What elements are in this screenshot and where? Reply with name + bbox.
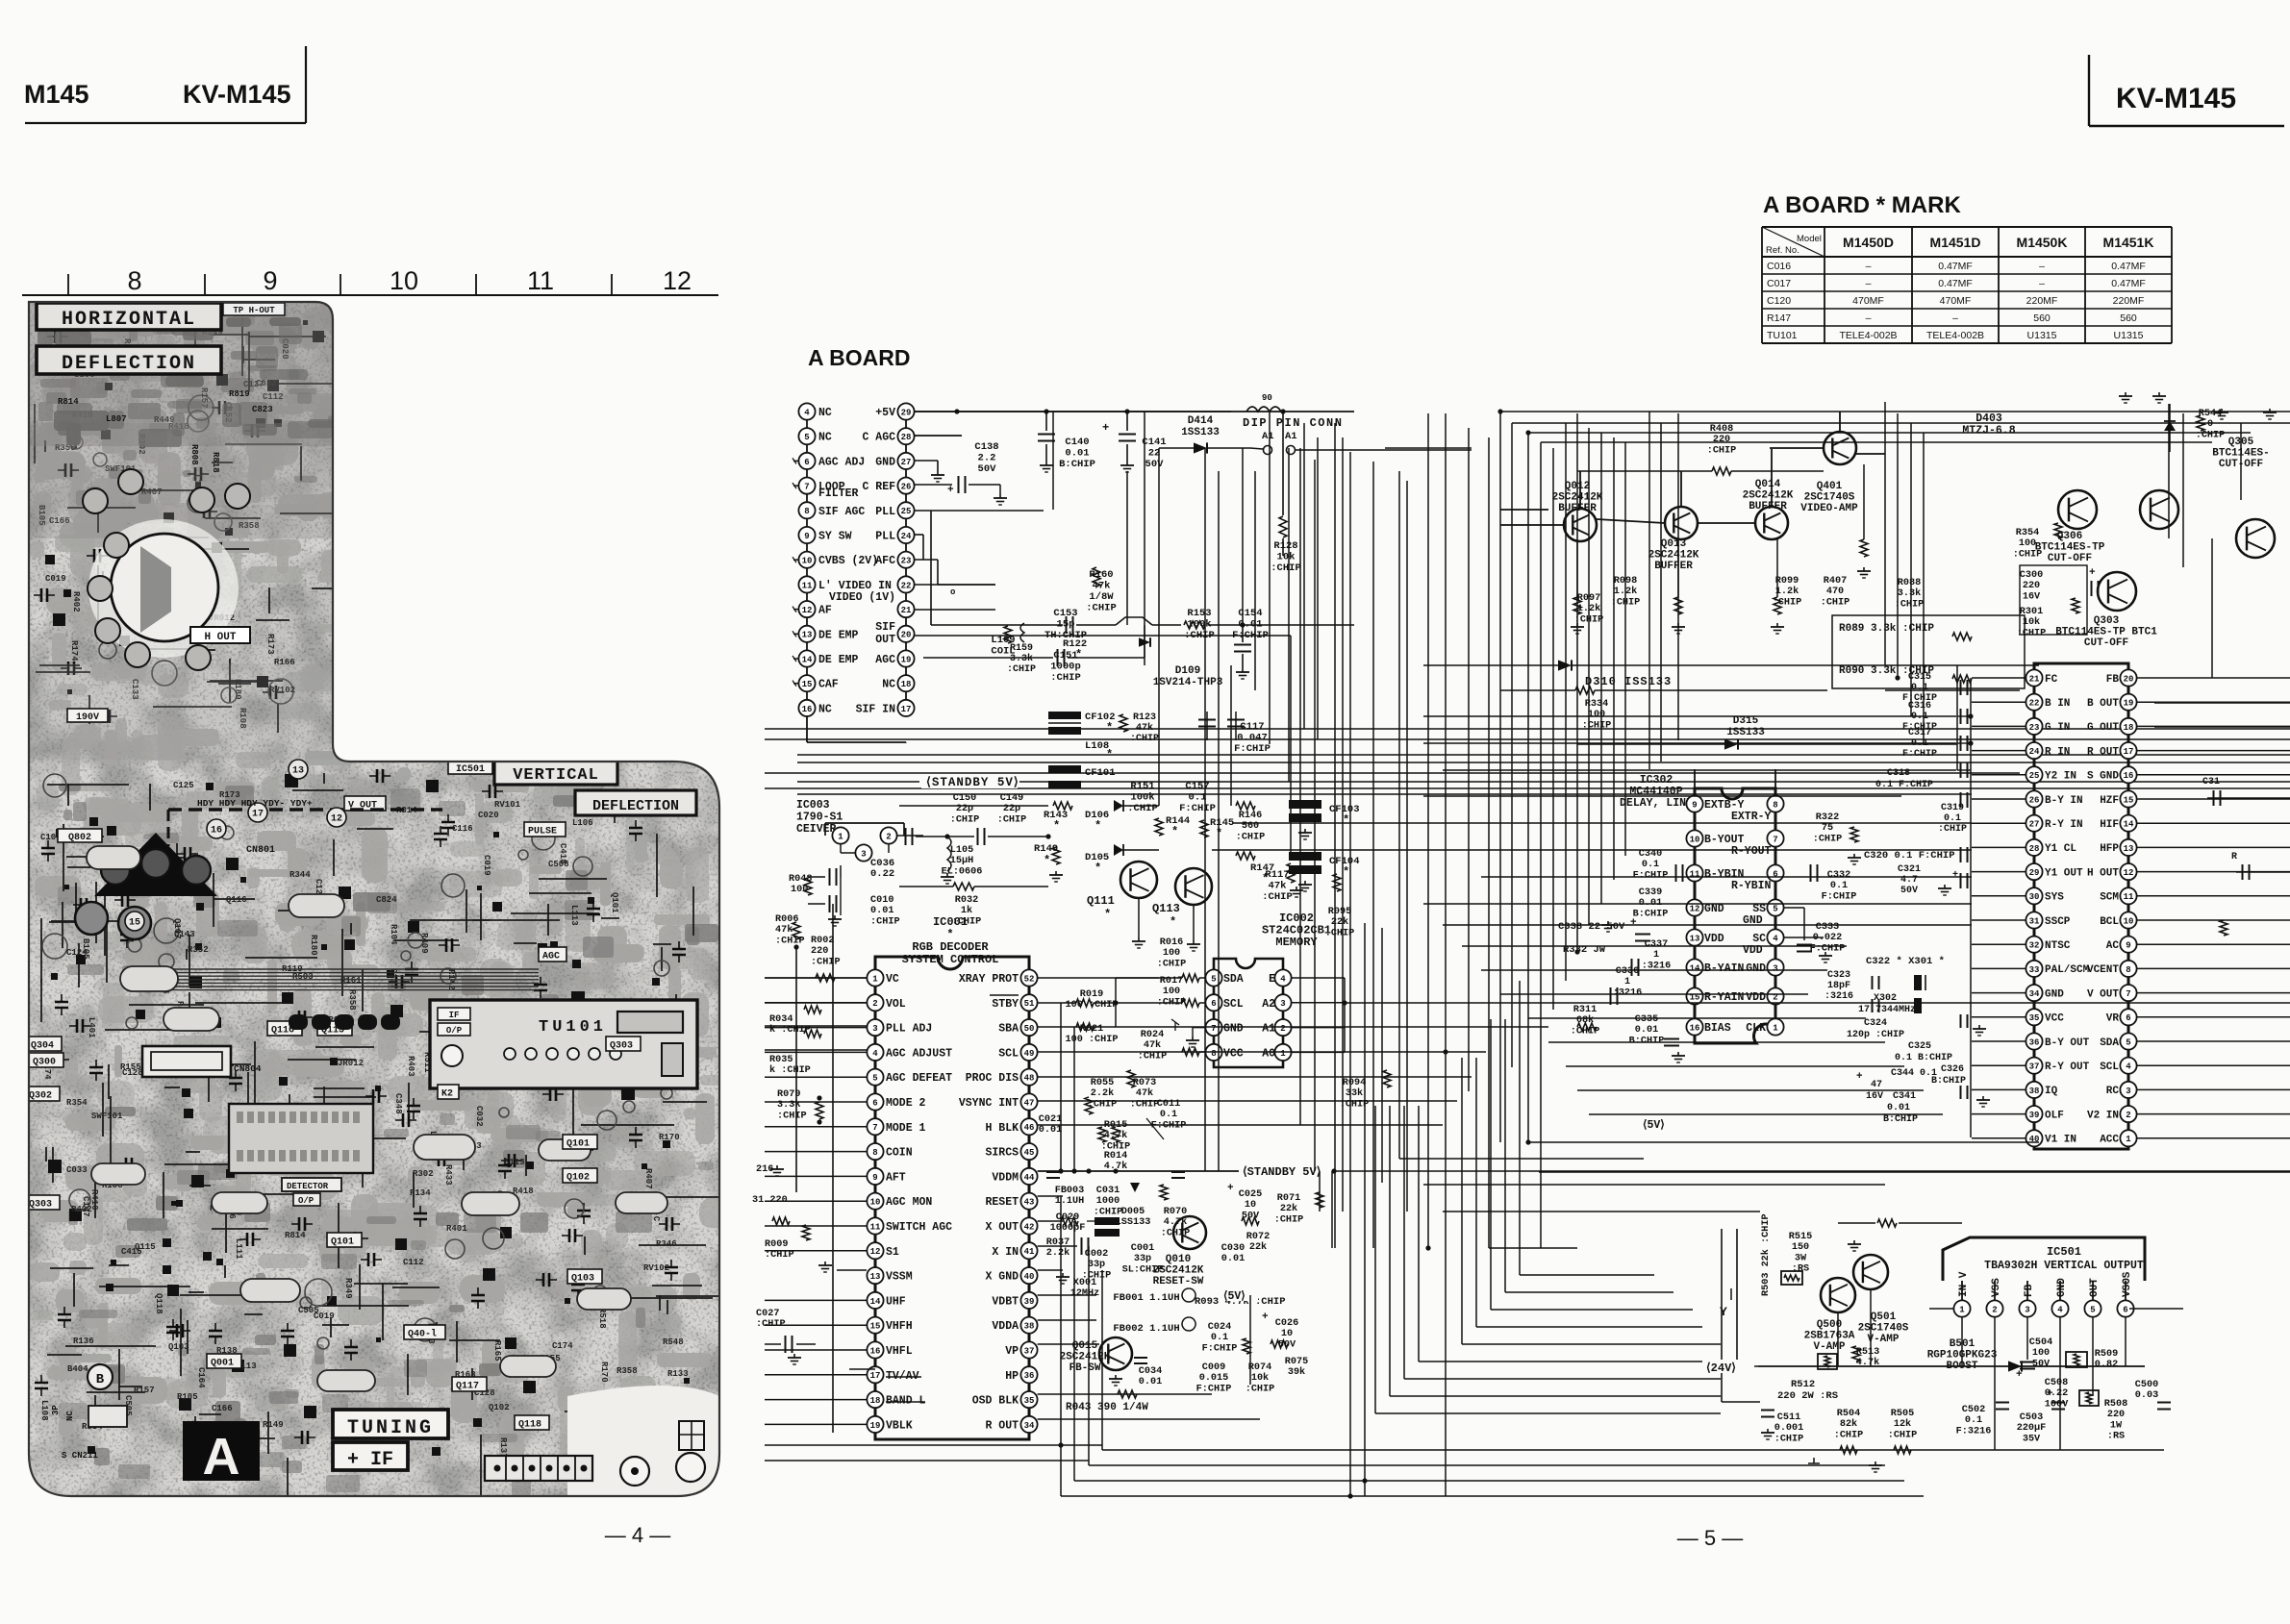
svg-text:3.3k: 3.3k	[777, 1099, 800, 1111]
svg-text:GND: GND	[2045, 988, 2064, 1000]
svg-text:44: 44	[1024, 1173, 1035, 1183]
svg-text:3.3k: 3.3k	[1010, 653, 1033, 664]
svg-text::CHIP: :CHIP	[1246, 1384, 1275, 1394]
svg-text:R515: R515	[1789, 1232, 1812, 1242]
svg-text:C300: C300	[2020, 570, 2043, 581]
svg-text:⟨STANDBY 5V⟩: ⟨STANDBY 5V⟩	[926, 775, 1019, 789]
svg-text:IN V: IN V	[1958, 1271, 1970, 1297]
svg-text:0.1 F:CHIP: 0.1 F:CHIP	[1875, 780, 1933, 790]
svg-text:R358: R358	[347, 989, 357, 1011]
svg-text:KV-M145: KV-M145	[2116, 83, 2236, 114]
svg-text:1SS133: 1SS133	[1726, 727, 1765, 738]
svg-text:R034: R034	[769, 1014, 793, 1025]
PCB black silk lines	[35, 315, 757, 1528]
5V label right	[1640, 1117, 1680, 1130]
svg-text:50V: 50V	[978, 463, 997, 475]
svg-text:C124: C124	[66, 948, 88, 958]
svg-text:0.47MF: 0.47MF	[1938, 278, 1973, 289]
svg-text:45: 45	[1024, 1148, 1035, 1158]
svg-text:49: 49	[1024, 1049, 1035, 1059]
jungle IC right box	[2034, 663, 2128, 1149]
R095 resistor	[1333, 874, 1341, 891]
svg-text:90: 90	[1262, 393, 1272, 403]
svg-text:14: 14	[2124, 820, 2134, 830]
power bus horizontal lines	[765, 729, 2290, 794]
board designator A black box	[183, 1421, 260, 1481]
svg-text::CHIP: :CHIP	[1774, 1434, 1804, 1444]
R144 R145 resistors	[1155, 818, 1163, 836]
svg-text:38: 38	[1024, 1322, 1035, 1332]
svg-text:C339: C339	[1639, 887, 1662, 898]
svg-text:CEIVER: CEIVER	[796, 823, 837, 836]
svg-text:10: 10	[1281, 1329, 1293, 1339]
svg-text:SCL: SCL	[2100, 1062, 2119, 1073]
svg-text:XRAY PROT: XRAY PROT	[959, 973, 1019, 986]
svg-text:*: *	[1044, 854, 1050, 867]
dashed deflection route	[168, 808, 442, 811]
svg-text:7: 7	[804, 483, 809, 492]
svg-text:0.001: 0.001	[1774, 1423, 1804, 1434]
svg-text:+: +	[1630, 917, 1637, 929]
svg-text:32: 32	[2029, 941, 2040, 951]
svg-text:C337: C337	[1645, 939, 1668, 950]
svg-text:+: +	[1227, 1183, 1234, 1194]
junction dots on grid	[1058, 409, 1973, 1498]
svg-text:R-YAIN: R-YAIN	[1704, 991, 1745, 1004]
svg-text:11: 11	[2124, 892, 2134, 902]
svg-text:36: 36	[1024, 1371, 1035, 1381]
svg-text:43: 43	[1024, 1198, 1035, 1208]
transformer T802 circle	[111, 534, 218, 641]
svg-text:23: 23	[901, 557, 912, 566]
svg-text:RESET-SW: RESET-SW	[1153, 1276, 1204, 1287]
black IC footprint row	[289, 1014, 400, 1030]
svg-text:R518: R518	[597, 1308, 607, 1329]
svg-text:GND: GND	[1746, 962, 1766, 975]
svg-text:C503: C503	[2020, 1412, 2043, 1423]
IC002 GND pin wire	[1193, 1027, 1205, 1029]
svg-text:17: 17	[252, 810, 264, 820]
svg-text:11: 11	[527, 266, 554, 295]
svg-text:VR: VR	[2106, 1013, 2120, 1025]
svg-text:0.47MF: 0.47MF	[2111, 261, 2146, 272]
svg-text:Q113: Q113	[1152, 902, 1180, 915]
svg-text:5: 5	[2126, 1037, 2130, 1047]
svg-text:0.1: 0.1	[1965, 1415, 1982, 1426]
svg-text:AGC DEFEAT: AGC DEFEAT	[886, 1072, 952, 1085]
svg-text:R128: R128	[1273, 540, 1297, 552]
svg-text:BIAS: BIAS	[1704, 1022, 1731, 1035]
svg-text::CHIP: :CHIP	[811, 957, 841, 967]
svg-text:C AGC: C AGC	[862, 432, 895, 444]
IC001 right pins 52-34	[959, 969, 1038, 1433]
svg-text:–: –	[2039, 278, 2045, 289]
svg-text:V-AMP: V-AMP	[1813, 1341, 1845, 1353]
svg-text:B IN: B IN	[2045, 698, 2070, 710]
svg-text:F:CHIP: F:CHIP	[1179, 803, 1216, 814]
svg-text:R099: R099	[1775, 576, 1799, 587]
svg-text:10k: 10k	[1251, 1372, 1269, 1384]
svg-text:22k: 22k	[1280, 1203, 1297, 1214]
svg-text:R358: R358	[617, 1366, 638, 1376]
svg-text:16: 16	[802, 705, 813, 714]
svg-text:27: 27	[2029, 820, 2040, 830]
IC302 right pins	[1746, 795, 1783, 1035]
svg-text:CN804: CN804	[234, 1063, 262, 1074]
IC501 left feed wires	[1721, 1229, 1723, 1402]
svg-text:R311: R311	[1573, 1005, 1597, 1015]
svg-text:+: +	[1856, 1071, 1863, 1083]
svg-text:1000: 1000	[1096, 1196, 1120, 1207]
svg-text:8: 8	[804, 507, 809, 516]
svg-text::CHIP: :CHIP	[1821, 597, 1850, 608]
svg-text:Q500: Q500	[1817, 1319, 1842, 1331]
svg-text:C505: C505	[298, 1306, 319, 1315]
svg-text:1000pF: 1000pF	[1050, 1223, 1086, 1234]
svg-text:50V: 50V	[1900, 886, 1918, 896]
svg-text:BCL: BCL	[2100, 916, 2119, 928]
svg-text:7: 7	[1211, 1024, 1216, 1034]
rect around R089 R090	[1832, 615, 2025, 688]
svg-text:0.22: 0.22	[870, 868, 894, 880]
svg-text:C116: C116	[452, 824, 473, 834]
svg-text:C019: C019	[45, 574, 66, 584]
pin22 VIDEO wire	[915, 584, 995, 586]
target circle marks bottom	[620, 1457, 649, 1486]
svg-text:SIF AGC: SIF AGC	[818, 506, 865, 518]
svg-text:6: 6	[1211, 999, 1216, 1009]
svg-text:Q802: Q802	[68, 833, 91, 843]
svg-text:470MF: 470MF	[1940, 295, 1972, 307]
svg-text::CHIP: :CHIP	[2017, 628, 2047, 638]
svg-text:23: 23	[2029, 723, 2040, 733]
svg-text::CHIP: :CHIP	[1094, 1207, 1123, 1217]
svg-text:220MF: 220MF	[2113, 295, 2145, 307]
svg-text:L807: L807	[106, 414, 127, 424]
svg-text:R089 3.3k :CHIP: R089 3.3k :CHIP	[1839, 623, 1934, 635]
svg-text:–: –	[1866, 312, 1872, 324]
svg-text::CHIP: :CHIP	[777, 1111, 807, 1121]
svg-text:9: 9	[263, 266, 277, 295]
svg-text:R508: R508	[2104, 1399, 2127, 1410]
svg-text:8: 8	[2126, 965, 2130, 975]
svg-text:F:CHIP: F:CHIP	[1902, 749, 1937, 760]
svg-text:470MF: 470MF	[1852, 295, 1884, 307]
svg-text:VC: VC	[886, 973, 899, 986]
svg-text:C320 0.1 F:CHIP: C320 0.1 F:CHIP	[1864, 850, 1955, 862]
svg-text:MTZJ-6.8: MTZJ-6.8	[1962, 425, 2015, 437]
svg-text:20: 20	[901, 631, 912, 640]
svg-text:CN801: CN801	[246, 845, 275, 856]
svg-text:F:CHIP: F:CHIP	[1234, 743, 1271, 755]
svg-text:B:CHIP: B:CHIP	[1633, 909, 1669, 919]
svg-text:C125: C125	[173, 781, 194, 790]
svg-text:+5V: +5V	[875, 407, 895, 419]
svg-text:10: 10	[390, 266, 418, 295]
svg-text:Q014: Q014	[1755, 479, 1781, 490]
IC302 top pin stubs	[1694, 769, 1696, 795]
svg-text::CHIP: :CHIP	[1274, 1214, 1304, 1225]
ceramic filter CF103	[1289, 800, 1321, 809]
svg-text:21: 21	[2029, 674, 2040, 684]
svg-text:D315: D315	[1733, 715, 1759, 727]
svg-text:2SC1740S: 2SC1740S	[1804, 492, 1855, 504]
svg-text::RS: :RS	[1792, 1264, 1809, 1275]
svg-text:PAL/SCM: PAL/SCM	[2045, 964, 2090, 976]
svg-text:+: +	[1102, 421, 1109, 435]
label Q802	[58, 829, 102, 842]
svg-text:39: 39	[1024, 1297, 1035, 1307]
svg-text:3: 3	[1773, 963, 1777, 973]
R097 resistor	[1573, 597, 1581, 614]
svg-text:38: 38	[2029, 1087, 2040, 1096]
svg-text:34: 34	[2029, 989, 2040, 999]
svg-text:C174: C174	[552, 1341, 573, 1351]
svg-text:R136: R136	[73, 1337, 94, 1346]
PCB pad circles	[42, 395, 672, 1349]
pin27 GND stub	[915, 460, 938, 462]
svg-text:35V: 35V	[2023, 1434, 2041, 1444]
label DEFLECTION vertical section	[575, 790, 696, 815]
svg-text:3: 3	[2025, 1305, 2029, 1314]
svg-text:FILTER: FILTER	[818, 487, 859, 500]
svg-text::CHIP: :CHIP	[765, 1250, 794, 1261]
jungle IC left pins 21-40	[2026, 669, 2089, 1146]
svg-text:IC501: IC501	[456, 764, 485, 775]
IC002 left pins	[1205, 969, 1243, 1061]
svg-text:C009: C009	[1202, 1362, 1225, 1373]
svg-text:12: 12	[331, 814, 342, 825]
svg-text:1: 1	[872, 974, 878, 984]
svg-text:BUFFER: BUFFER	[1749, 501, 1787, 512]
svg-text:7: 7	[1773, 835, 1777, 844]
svg-text:A BOARD * MARK: A BOARD * MARK	[1763, 192, 1961, 218]
svg-text:B OUT: B OUT	[2087, 698, 2119, 710]
svg-text:MEMORY: MEMORY	[1275, 936, 1318, 949]
svg-text:C017: C017	[1767, 278, 1791, 289]
svg-text:47k: 47k	[1093, 581, 1111, 592]
svg-text:33p: 33p	[1134, 1254, 1151, 1264]
cap C140 with ground	[1045, 412, 1047, 431]
svg-text:R349: R349	[343, 1278, 353, 1299]
svg-text:–: –	[1866, 261, 1872, 272]
svg-text:VCC: VCC	[2045, 1013, 2064, 1025]
svg-text:Q118: Q118	[154, 1293, 164, 1314]
svg-text:*: *	[1170, 915, 1176, 929]
transistor Q500 v-amp	[1821, 1278, 1855, 1312]
svg-text:6: 6	[2126, 1013, 2130, 1023]
svg-text:Model: Model	[1797, 234, 1822, 244]
svg-text:NC: NC	[818, 432, 832, 444]
svg-text:R016: R016	[1160, 937, 1183, 948]
svg-text:1: 1	[2126, 1135, 2131, 1144]
svg-text:S CN211: S CN211	[62, 1451, 98, 1461]
darker top band overlay	[24, 302, 333, 446]
label DEFLECTION	[37, 346, 221, 374]
svg-text:R070: R070	[1164, 1207, 1187, 1217]
ceramic filter CF101	[1048, 765, 1081, 773]
svg-text:0.1: 0.1	[1830, 881, 1848, 891]
svg-text:22p: 22p	[1003, 804, 1020, 814]
svg-text:220μF: 220μF	[2017, 1423, 2047, 1434]
svg-text:2SC2412K: 2SC2412K	[1153, 1265, 1204, 1277]
svg-text:–: –	[1866, 278, 1872, 289]
svg-text:10: 10	[802, 557, 813, 566]
svg-text:AGC ADJUST: AGC ADJUST	[886, 1047, 952, 1060]
pin23 AFC wire	[915, 559, 938, 561]
svg-text:V OUT: V OUT	[2087, 988, 2119, 1000]
svg-text:0.01: 0.01	[1887, 1103, 1910, 1113]
svg-text:10: 10	[2124, 916, 2134, 926]
svg-text:K2: K2	[441, 1089, 453, 1100]
IC001 RGB decoder system control box	[875, 915, 1029, 1439]
svg-text:S1: S1	[886, 1246, 899, 1259]
A BOARD MARK table	[1762, 227, 2172, 343]
svg-text:16: 16	[2124, 771, 2134, 781]
svg-text:U1315: U1315	[2114, 330, 2144, 341]
svg-text:12: 12	[1690, 904, 1700, 913]
svg-text:C020: C020	[478, 811, 499, 820]
OSD BLK pin35 R043	[1038, 1393, 1212, 1395]
svg-text:L105: L105	[950, 845, 973, 856]
svg-text:RESET: RESET	[985, 1196, 1019, 1209]
svg-text:⟨24V⟩: ⟨24V⟩	[1706, 1362, 1736, 1375]
svg-text:L113: L113	[569, 905, 579, 926]
RESET row	[1038, 1195, 1063, 1197]
svg-text:39: 39	[2029, 1111, 2040, 1120]
svg-text:R105: R105	[177, 1392, 198, 1402]
svg-text:0.015: 0.015	[1199, 1373, 1229, 1384]
svg-text:SWITCH AGC: SWITCH AGC	[886, 1221, 952, 1234]
svg-text:B:CHIP: B:CHIP	[1059, 459, 1095, 470]
svg-text:R002: R002	[811, 936, 834, 946]
svg-text:OUT: OUT	[2089, 1278, 2101, 1297]
svg-text:G OUT: G OUT	[2087, 722, 2119, 734]
white capsule component outlines	[87, 846, 667, 1391]
svg-text:0.01: 0.01	[1065, 448, 1089, 460]
svg-text:C027: C027	[756, 1309, 779, 1319]
svg-text:A BOARD: A BOARD	[808, 345, 910, 370]
svg-text:C166: C166	[212, 1404, 233, 1413]
pin24 PLL wire with L109 C151	[915, 534, 923, 536]
svg-text:OUT: OUT	[875, 634, 895, 646]
svg-text:TU101: TU101	[539, 1018, 607, 1037]
svg-text:470: 470	[1826, 587, 1844, 597]
PCB outline border	[29, 302, 719, 1496]
bus label STANDBY 5V	[797, 775, 2290, 789]
svg-text:2SC2412K: 2SC2412K	[1743, 490, 1794, 502]
svg-text:C338 22 50V: C338 22 50V	[1558, 921, 1625, 933]
svg-text:NC: NC	[818, 407, 832, 419]
svg-text:C321: C321	[1898, 864, 1921, 875]
svg-text:29: 29	[2029, 868, 2040, 878]
svg-text:L111: L111	[234, 1238, 243, 1260]
svg-text:O/P: O/P	[446, 1026, 463, 1036]
svg-text:C031: C031	[1096, 1186, 1120, 1196]
heatsink triangle Q802	[94, 833, 217, 896]
svg-text:VBLK: VBLK	[886, 1419, 913, 1432]
R146 560 resistor	[1236, 802, 1255, 810]
boxed resistor R515	[1781, 1271, 1802, 1285]
svg-text:R-YOUT: R-YOUT	[1731, 845, 1772, 858]
svg-text::CHIP: :CHIP	[756, 1319, 786, 1330]
white boxed reference labels	[25, 796, 641, 1512]
svg-text:AF: AF	[818, 605, 832, 617]
PCB copper halftone blobs	[30, 303, 733, 1465]
svg-text:+: +	[1952, 870, 1958, 881]
svg-text:3P: 3P	[51, 1405, 61, 1415]
svg-text:Q117: Q117	[456, 1382, 479, 1392]
svg-text:C140: C140	[1065, 437, 1089, 448]
svg-text:— 5 —: — 5 —	[1677, 1526, 1743, 1550]
svg-text:F:CHIP: F:CHIP	[1822, 891, 1857, 902]
svg-text:GND: GND	[1704, 903, 1724, 915]
header divider lines top-left	[305, 46, 307, 123]
svg-text:220: 220	[811, 946, 828, 957]
svg-text:SSCP: SSCP	[2045, 916, 2071, 928]
svg-text::CHIP: :CHIP	[1082, 1270, 1112, 1281]
svg-text:R301: R301	[2020, 607, 2043, 617]
svg-text:C143: C143	[174, 930, 195, 939]
svg-text:Q303: Q303	[29, 1200, 52, 1211]
svg-text:R346: R346	[656, 1239, 677, 1249]
ceramic filter CF104	[1289, 852, 1321, 861]
IC002 right pins	[1262, 969, 1346, 1061]
svg-text:B:CHIP: B:CHIP	[1883, 1114, 1918, 1125]
svg-text:MODE 2: MODE 2	[886, 1097, 926, 1110]
svg-text:2.2: 2.2	[978, 453, 996, 464]
connector CN804 white box	[142, 1046, 231, 1077]
svg-text:VDDM: VDDM	[992, 1171, 1019, 1184]
svg-text:IQ: IQ	[2045, 1086, 2058, 1097]
svg-text::CHIP: :CHIP	[1895, 599, 1925, 610]
transistor Q111	[1120, 862, 1157, 898]
svg-text:L401: L401	[87, 1017, 96, 1038]
svg-text:RC: RC	[2106, 1086, 2120, 1097]
svg-text:6: 6	[804, 458, 809, 467]
svg-text:C112: C112	[403, 1258, 424, 1267]
svg-text:0.1: 0.1	[1642, 860, 1659, 870]
PLL network wires	[930, 511, 932, 625]
svg-text::CHIP: :CHIP	[1007, 664, 1036, 675]
svg-text:C032: C032	[474, 1106, 484, 1127]
svg-text:R513: R513	[1856, 1347, 1879, 1358]
svg-text:COIN: COIN	[886, 1147, 913, 1160]
svg-text:VIDEO (1V): VIDEO (1V)	[829, 591, 895, 604]
svg-text::RS: :RS	[2107, 1432, 2125, 1442]
svg-text:SCL: SCL	[1223, 998, 1244, 1011]
svg-text:Q103: Q103	[571, 1274, 594, 1285]
svg-text:26: 26	[901, 483, 912, 492]
svg-text:*: *	[1106, 721, 1113, 735]
top band extra traces	[38, 309, 350, 447]
PCB capacitor I-beam symbols	[34, 330, 686, 1462]
R OUT pin34 wire	[1038, 1418, 1260, 1420]
svg-text:8: 8	[1211, 1049, 1216, 1059]
svg-text:560: 560	[2120, 312, 2137, 324]
VDDA pin38 FB002	[1038, 1319, 1096, 1321]
svg-text:47k: 47k	[1269, 881, 1287, 892]
label HORIZONTAL	[37, 303, 221, 330]
24V label	[1704, 1360, 1754, 1373]
svg-text:R147: R147	[1767, 312, 1791, 324]
svg-text:C149: C149	[1000, 793, 1023, 804]
svg-text:R157: R157	[134, 1386, 155, 1395]
svg-text:JR012: JR012	[338, 1059, 364, 1068]
svg-text:ACC: ACC	[2100, 1135, 2119, 1146]
svg-text:Q111: Q111	[1087, 894, 1115, 908]
svg-text:C31: C31	[2202, 777, 2220, 787]
